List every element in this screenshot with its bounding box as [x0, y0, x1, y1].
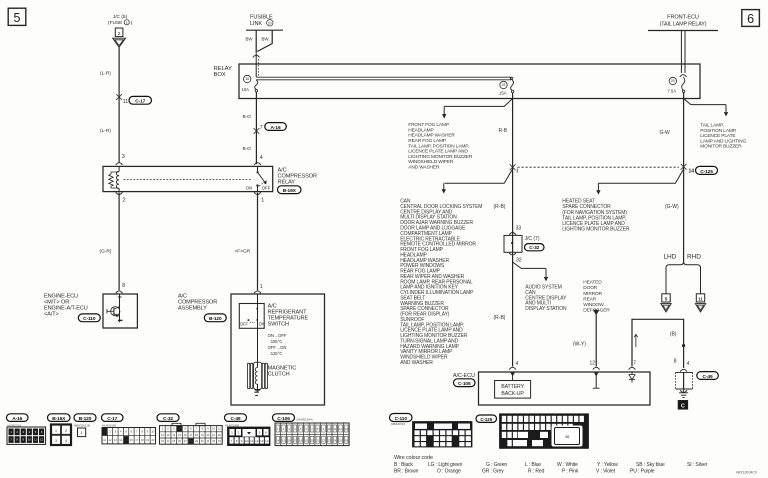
- wire BW right: [257, 30, 272, 51]
- A/C-ECU box: [479, 372, 651, 405]
- pin labels 8 / 4 at capacitor connector: [674, 358, 690, 371]
- svg-text:10: 10: [212, 427, 215, 431]
- relay box label: [214, 66, 233, 78]
- svg-text:26: 26: [345, 438, 348, 442]
- svg-text:33: 33: [218, 439, 221, 443]
- svg-text:38: 38: [565, 434, 570, 439]
- svg-text:11: 11: [698, 296, 703, 301]
- svg-text:32: 32: [516, 258, 522, 264]
- svg-text:30: 30: [201, 439, 204, 443]
- svg-text:25: 25: [172, 439, 175, 443]
- pin 1 of compressor assembly: [254, 284, 263, 293]
- wire label (W-Y): [573, 341, 586, 347]
- svg-text:22: 22: [502, 83, 506, 87]
- ENGINE-ECU label C-110: [44, 294, 100, 323]
- pin 4 of A/C-ECU: [509, 361, 518, 370]
- svg-text:BATTERY: BATTERY: [501, 384, 524, 390]
- relay box boundary connector for fusible link: [253, 52, 260, 77]
- wire (G-R) relay pin 2 to engine ECU: [100, 193, 120, 291]
- FRONT-ECU (TAIL LAMP RELAY) label: [648, 15, 718, 31]
- svg-text:R-B: R-B: [499, 128, 508, 134]
- fusible link 20 label: [250, 15, 273, 28]
- svg-text:BR : Brown: BR : Brown: [394, 469, 419, 475]
- svg-text:2: 2: [118, 31, 121, 37]
- svg-text:OFF: OFF: [262, 186, 271, 191]
- svg-text:GR : Grey: GR : Grey: [482, 469, 504, 475]
- svg-text:(G-R): (G-R): [100, 248, 112, 254]
- svg-text:DISPLAY STATION: DISPLAY STATION: [525, 306, 567, 312]
- svg-text:BW: BW: [246, 37, 254, 42]
- wire label B-O upper: [243, 114, 252, 120]
- svg-text:(TAIL LAMP RELAY): (TAIL LAMP RELAY): [660, 22, 707, 28]
- svg-text:CLUTCH: CLUTCH: [268, 372, 290, 378]
- svg-text:2: 2: [123, 197, 126, 203]
- svg-text:18: 18: [141, 438, 144, 442]
- svg-text:FRONT FOG LAMP: FRONT FOG LAMP: [408, 122, 449, 128]
- svg-text:(W-Y): (W-Y): [573, 341, 586, 347]
- svg-text:OFF→ON: OFF→ON: [268, 345, 287, 350]
- svg-text:LIGHTING MONITOR BUZZER: LIGHTING MONITOR BUZZER: [408, 154, 473, 160]
- svg-text:OFF: OFF: [240, 322, 249, 327]
- junction node dot on (B) wire: [682, 344, 685, 347]
- load list: heated seat etc: [562, 199, 630, 233]
- svg-text:12: 12: [339, 427, 342, 431]
- svg-text:BACK-UP: BACK-UP: [501, 391, 524, 397]
- svg-text:ON: ON: [246, 186, 253, 191]
- wire label (R-B) upper: [494, 204, 506, 210]
- svg-text:SWITCH: SWITCH: [268, 322, 289, 328]
- svg-text:21: 21: [212, 433, 215, 437]
- svg-text:C-106: C-106: [277, 416, 290, 422]
- svg-text:LIGHTING MONITOR BUZZER: LIGHTING MONITOR BUZZER: [562, 227, 630, 233]
- svg-text:(R-B): (R-B): [494, 315, 506, 321]
- svg-text:(L-R): (L-R): [100, 128, 111, 134]
- svg-text:18: 18: [299, 438, 302, 442]
- svg-text:13: 13: [345, 427, 348, 431]
- svg-text:5: 5: [14, 11, 21, 25]
- fusible link bus line: [246, 29, 283, 31]
- wire BW left: [246, 30, 257, 52]
- svg-text:6: 6: [747, 12, 754, 26]
- svg-text:22: 22: [218, 433, 221, 437]
- svg-text:<F>GR: <F>GR: [235, 248, 251, 254]
- svg-text:MB820545: MB820545: [391, 422, 405, 426]
- svg-text:PU : Purple: PU : Purple: [630, 469, 655, 475]
- svg-text:A-16: A-16: [271, 125, 281, 131]
- magnetic clutch label: [268, 366, 297, 378]
- relay switch contact ON/OFF: [246, 166, 271, 191]
- svg-text:C: C: [681, 404, 685, 410]
- RHD destination connector symbol: [695, 294, 705, 312]
- svg-text:LAMP AND LIGHTING: LAMP AND LIGHTING: [700, 138, 746, 144]
- svg-text:B-O: B-O: [243, 114, 252, 120]
- svg-text:15: 15: [178, 433, 181, 437]
- svg-text:C-49: C-49: [703, 374, 713, 380]
- svg-text:23: 23: [161, 439, 164, 443]
- svg-text:LINK: LINK: [250, 21, 262, 27]
- svg-text:17: 17: [189, 433, 192, 437]
- wire label (R-B) lower: [494, 315, 506, 321]
- svg-text:LICENCE PLATE: LICENCE PLATE: [700, 133, 735, 139]
- svg-text:4: 4: [260, 155, 263, 161]
- svg-text:28: 28: [189, 439, 192, 443]
- svg-text:B : Black: B : Black: [394, 462, 413, 468]
- svg-text:14: 14: [265, 439, 269, 443]
- svg-text:5: 5: [665, 296, 668, 301]
- svg-text:15: 15: [125, 438, 128, 442]
- colour code line 1: [394, 462, 708, 468]
- svg-text:25: 25: [339, 438, 342, 442]
- A/C-ECU label C-105: [453, 373, 475, 387]
- svg-text:W : White: W : White: [557, 462, 578, 468]
- svg-text:BW: BW: [262, 37, 270, 42]
- fuse 22 15A: [499, 77, 514, 98]
- ground symbol below capacitor: [679, 389, 688, 398]
- relay box outline: [239, 64, 700, 99]
- svg-text:H8X12E04C0: H8X12E04C0: [736, 471, 757, 475]
- svg-text:3: 3: [55, 439, 57, 443]
- svg-text:(R-B): (R-B): [494, 204, 506, 210]
- svg-text:8: 8: [122, 283, 125, 289]
- svg-text:17: 17: [293, 438, 296, 442]
- svg-text:13: 13: [114, 438, 117, 442]
- A/C compressor assembly box: [231, 294, 325, 405]
- colour code line 2: [394, 469, 655, 475]
- wire label (L-R) upper: [100, 71, 111, 77]
- branch to tail lamp list: [684, 99, 729, 117]
- svg-text:REAR: REAR: [583, 296, 596, 302]
- ENGINE-ECU box: [103, 294, 137, 328]
- branch to CAN system list: [442, 169, 513, 194]
- svg-text:3: 3: [122, 154, 125, 160]
- svg-text:G-W: G-W: [660, 130, 671, 136]
- branch to front fog lamp list: [442, 99, 513, 119]
- svg-text:TAIL LAMP, POSITION LAMP,: TAIL LAMP, POSITION LAMP,: [408, 143, 469, 149]
- svg-text:B-16X: B-16X: [52, 416, 66, 422]
- svg-text:(MU801934): (MU801934): [297, 418, 313, 422]
- pin 3 of compressor relay: [116, 154, 125, 165]
- svg-text:LHD: LHD: [664, 254, 677, 261]
- svg-text:(G-W): (G-W): [665, 204, 679, 210]
- load list: front fog lamp etc: [408, 122, 473, 170]
- LHD destination connector symbol: [661, 294, 671, 312]
- svg-text:HEADLAMP: HEADLAMP: [408, 127, 433, 133]
- svg-text:14: 14: [172, 433, 175, 437]
- svg-text:AND WASHER: AND WASHER: [400, 360, 433, 366]
- svg-text:19: 19: [201, 433, 204, 437]
- connector diagram C-106: [273, 414, 350, 446]
- wire <F>GR relay pin 1 to compressor: [235, 193, 258, 291]
- svg-text:R : Red: R : Red: [528, 469, 545, 475]
- wire G-W main vertical: [683, 99, 685, 262]
- svg-text:4: 4: [687, 361, 690, 367]
- svg-text:10: 10: [151, 430, 154, 434]
- svg-text:A-16: A-16: [12, 416, 22, 422]
- pin 7 of A/C-ECU: [629, 361, 637, 370]
- connector diagram C-125: [476, 414, 589, 449]
- junction block J/C (5) FUSE 1 label: [108, 14, 133, 26]
- fuse 20 7.5A: [668, 75, 687, 99]
- svg-text:12: 12: [590, 361, 596, 367]
- svg-text:REAR FOG LAMP: REAR FOG LAMP: [408, 138, 446, 144]
- svg-text:7: 7: [633, 361, 636, 367]
- svg-text:B-120: B-120: [209, 316, 222, 322]
- branch to audio system list: [513, 262, 549, 281]
- svg-text:15A: 15A: [499, 90, 507, 95]
- svg-text:1: 1: [260, 284, 263, 290]
- svg-text::155°C: :155°C: [270, 339, 283, 344]
- svg-text:13: 13: [167, 433, 170, 437]
- svg-text:13: 13: [260, 439, 264, 443]
- svg-text:MONITOR BUZZER: MONITOR BUZZER: [700, 144, 742, 150]
- svg-text:19: 19: [146, 438, 149, 442]
- svg-text:16: 16: [288, 438, 291, 442]
- svg-text:BOX: BOX: [214, 72, 226, 78]
- LHD/RHD fork: [666, 262, 701, 294]
- page number 6: [742, 10, 760, 27]
- temperature switch label: [268, 304, 309, 328]
- wire colour code text: [394, 455, 433, 461]
- connector diagram C-110: [390, 414, 473, 448]
- svg-text:C-110: C-110: [83, 316, 96, 322]
- svg-text:24: 24: [167, 439, 170, 443]
- svg-text:J/C (7): J/C (7): [525, 236, 540, 242]
- svg-text:C-105: C-105: [458, 381, 471, 387]
- wire label R-B: [499, 128, 508, 134]
- svg-text:15: 15: [282, 438, 285, 442]
- svg-text:MIRROR: MIRROR: [583, 291, 602, 297]
- svg-text:20: 20: [671, 79, 675, 83]
- svg-text:16: 16: [245, 77, 249, 81]
- svg-text:11: 11: [250, 439, 253, 443]
- switch temperature values: [268, 333, 287, 356]
- wire label (G-W): [665, 204, 679, 210]
- svg-text:22: 22: [322, 438, 325, 442]
- svg-text:7.5A: 7.5A: [668, 89, 677, 94]
- svg-text:2: 2: [65, 429, 67, 433]
- svg-text:20: 20: [268, 21, 272, 25]
- svg-text:LICENCE PLATE LAMP AND: LICENCE PLATE LAMP AND: [408, 149, 468, 155]
- svg-text:C-125: C-125: [480, 417, 492, 422]
- pin 7 internal diode: [629, 372, 635, 383]
- wire (L-R) from J/C(5) to compressor relay pin 3: [118, 47, 120, 162]
- svg-text:<A/T>: <A/T>: [44, 312, 59, 318]
- svg-text:10A: 10A: [242, 87, 250, 92]
- svg-text:WINDSHIELD WIPER: WINDSHIELD WIPER: [408, 159, 454, 165]
- wire label (L-R) lower: [100, 128, 111, 134]
- svg-text::125°C: :125°C: [270, 351, 283, 356]
- J/C double-triangle connector symbol: [113, 38, 126, 47]
- svg-text:24: 24: [333, 438, 336, 442]
- svg-text:B-120: B-120: [79, 416, 92, 422]
- svg-text:11: 11: [103, 438, 106, 442]
- svg-text:B-19X: B-19X: [283, 188, 297, 194]
- svg-text:C-32: C-32: [529, 245, 539, 251]
- svg-text:12: 12: [109, 438, 112, 442]
- ground inside compressor assembly: [254, 392, 259, 395]
- J/C terminal box 2: [115, 28, 123, 37]
- svg-text:(B): (B): [670, 331, 677, 337]
- svg-text:POSITION LAMP,: POSITION LAMP,: [700, 128, 736, 134]
- svg-text:1: 1: [81, 431, 83, 435]
- svg-text:11: 11: [123, 99, 128, 105]
- connector diagram B-120: [74, 414, 96, 437]
- connector diagram C-17: [102, 414, 156, 444]
- wire loop from capacitor node to A/C-ECU pin 7: [632, 319, 684, 368]
- svg-text:RELAY: RELAY: [278, 180, 296, 186]
- load list: audio system etc: [525, 285, 567, 312]
- svg-text:1: 1: [126, 21, 128, 25]
- source list: heated door mirror / rear window defogger: [583, 280, 610, 314]
- svg-text:A/C-ECU: A/C-ECU: [453, 373, 475, 379]
- svg-text:12: 12: [161, 433, 164, 437]
- relay mechanical link (dashed): [124, 178, 253, 180]
- svg-text:16: 16: [184, 433, 187, 437]
- svg-text:SB : Sky blue: SB : Sky blue: [636, 462, 665, 468]
- wire label G-W: [660, 130, 671, 136]
- earth point marker C: [678, 400, 688, 409]
- svg-text:C-49: C-49: [231, 416, 241, 422]
- svg-text:4: 4: [65, 439, 67, 443]
- svg-text:DOOR: DOOR: [583, 285, 598, 291]
- svg-text:Y : Yellow: Y : Yellow: [597, 462, 618, 468]
- svg-text:SI : Silver: SI : Silver: [687, 462, 708, 468]
- svg-text:MU801596: MU801596: [102, 423, 117, 427]
- svg-text:MB832612B: MB832612B: [74, 423, 90, 427]
- pin 12 internal stub: [593, 372, 600, 388]
- wire label (B): [670, 331, 677, 337]
- svg-text:8: 8: [674, 358, 677, 364]
- A/C compressor assembly label B-120: [178, 294, 226, 323]
- fuse 16 10A: [242, 75, 258, 98]
- connector diagram C-32: [157, 414, 222, 444]
- svg-text:J/C (5): J/C (5): [113, 14, 128, 20]
- svg-text:18: 18: [195, 433, 198, 437]
- svg-text:21: 21: [316, 438, 319, 442]
- page number 5: [8, 8, 26, 25]
- dashed connector link line: [518, 166, 680, 168]
- relay coil with parallel resistor: [109, 166, 119, 191]
- feed arrow into wire (W-Y): [593, 310, 599, 367]
- wire continuation marker (arrow): [634, 334, 637, 347]
- svg-text:C-125: C-125: [700, 169, 713, 175]
- svg-text:4: 4: [516, 361, 519, 367]
- svg-text:20: 20: [151, 438, 154, 442]
- svg-text:RHD: RHD: [687, 254, 701, 261]
- svg-text:16: 16: [130, 438, 133, 442]
- transistor inside engine ECU: [107, 294, 123, 322]
- svg-text:L : Blue: L : Blue: [525, 462, 541, 468]
- bus bar double line: [256, 77, 511, 80]
- svg-text:B-O: B-O: [243, 146, 252, 152]
- svg-text:C-17: C-17: [135, 99, 145, 105]
- svg-text:10: 10: [328, 427, 331, 431]
- A/C refrigerant temperature switch: [239, 294, 265, 328]
- svg-text:19: 19: [305, 438, 308, 442]
- pin 8 of engine ECU: [116, 283, 126, 293]
- svg-text:20: 20: [206, 433, 209, 437]
- svg-text:11: 11: [333, 427, 336, 431]
- in-line connector marker 11 C-17: [116, 94, 151, 105]
- svg-text:G : Green: G : Green: [486, 462, 507, 468]
- noise capacitor in dashed connector C-49: [676, 372, 719, 389]
- pin 12 of A/C-ECU: [590, 361, 600, 370]
- battery back-up block: [495, 372, 531, 398]
- junction block J/C (7) C-32, pins 33/32: [504, 226, 544, 264]
- svg-text:12: 12: [255, 439, 259, 443]
- svg-text:Wire colour code: Wire colour code: [394, 455, 433, 461]
- connector junction 14 C-125: [681, 164, 718, 175]
- relay pin labels 3 2 4 1: [116, 155, 265, 204]
- svg-text:ON: ON: [259, 322, 265, 327]
- svg-text:17: 17: [135, 438, 138, 442]
- svg-text:26: 26: [178, 439, 181, 443]
- svg-text:32: 32: [212, 439, 215, 443]
- svg-text:14: 14: [276, 438, 279, 442]
- svg-text:V : Violet: V : Violet: [596, 469, 616, 475]
- svg-text:LG : Light green: LG : Light green: [428, 462, 463, 468]
- svg-text:FRONT-ECU: FRONT-ECU: [667, 15, 699, 21]
- svg-text:HEADLAMP WASHER: HEADLAMP WASHER: [408, 133, 455, 139]
- svg-text:ON→OFF: ON→OFF: [268, 333, 287, 338]
- svg-text:1: 1: [261, 197, 264, 203]
- LHD / RHD split labels: [664, 254, 702, 261]
- svg-text:1: 1: [55, 429, 57, 433]
- svg-text:27: 27: [184, 439, 187, 443]
- svg-text:WINDOW: WINDOW: [583, 302, 604, 308]
- svg-text:14: 14: [689, 168, 695, 174]
- double wire from FRONT-ECU: [681, 31, 685, 74]
- wire label B-O lower: [243, 146, 252, 152]
- svg-text:ASSEMBLY: ASSEMBLY: [178, 306, 207, 312]
- A/C compressor relay label B-19X: [278, 168, 317, 194]
- svg-text:(FUSE: (FUSE: [108, 20, 122, 26]
- magnetic clutch coil: [247, 328, 267, 392]
- connector diagram A-16: [7, 414, 46, 445]
- svg-text:HEATED: HEATED: [583, 280, 602, 286]
- wire B-O from relay box to compressor relay pin 4: [255, 99, 257, 165]
- A/C compressor relay box: [103, 166, 273, 191]
- branch to heated seat list: [596, 169, 683, 195]
- load list: tail lamp etc (right): [700, 123, 746, 150]
- svg-text:14: 14: [119, 438, 122, 442]
- svg-text:7: 7: [260, 125, 263, 131]
- svg-text:29: 29: [195, 439, 198, 443]
- svg-text:O : Orange: O : Orange: [437, 469, 461, 475]
- svg-text:(L-R): (L-R): [100, 71, 111, 77]
- svg-text:20: 20: [311, 438, 314, 442]
- svg-text:P : Pink: P : Pink: [562, 469, 579, 475]
- svg-text:33: 33: [516, 226, 522, 232]
- svg-text:23: 23: [328, 438, 331, 442]
- svg-text:31: 31: [206, 439, 209, 443]
- connector junction on R-B wire at dashed link: [510, 164, 518, 172]
- svg-text:AND WASHER: AND WASHER: [408, 164, 440, 170]
- svg-text:C-17: C-17: [107, 416, 117, 422]
- svg-text:10: 10: [245, 439, 249, 443]
- sheet code: [736, 471, 757, 475]
- connector diagram B-16X: [48, 414, 72, 445]
- wire R-B main vertical: [512, 99, 514, 367]
- load list: CAN / central door locking etc: [400, 199, 482, 366]
- in-line connector marker 7 A-16: [254, 123, 287, 134]
- svg-text:TAIL LAMP,: TAIL LAMP,: [700, 123, 723, 129]
- connector diagram C-49: [225, 414, 271, 446]
- svg-text:C-32: C-32: [163, 416, 173, 422]
